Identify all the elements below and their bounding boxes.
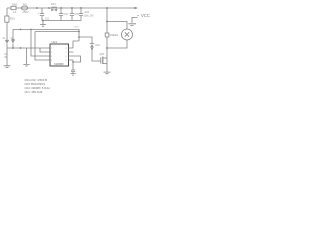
- svg-text:VCC: VCC: [141, 13, 150, 18]
- svg-text:+: +: [38, 13, 40, 16]
- svg-text:C03: C03: [75, 13, 80, 16]
- svg-text:100u 25V: 100u 25V: [84, 14, 95, 17]
- svg-text:D02: D02: [95, 44, 100, 47]
- svg-text:U01: U01: [52, 40, 58, 44]
- svg-text:M01: M01: [114, 34, 119, 37]
- svg-text:Z1: Z1: [3, 37, 6, 40]
- svg-text:R01: R01: [10, 17, 15, 21]
- svg-text:D01: D01: [51, 2, 56, 6]
- svg-text:IN: IN: [4, 56, 7, 59]
- svg-text:S1D880: S1D880: [54, 62, 64, 66]
- svg-text:1A: 1A: [13, 10, 16, 14]
- svg-text:CF1: 455 KHZ: CF1: 455 KHZ: [25, 90, 43, 94]
- svg-text:250V: 250V: [23, 10, 29, 14]
- svg-text:Q01: Q01: [100, 52, 105, 56]
- svg-text:VDD: VDD: [74, 27, 79, 29]
- svg-text:F01: F01: [23, 2, 28, 6]
- svg-text:SW1: SW1: [12, 2, 18, 6]
- svg-text:C02: C02: [64, 13, 69, 16]
- svg-text:C01: C01: [45, 18, 50, 21]
